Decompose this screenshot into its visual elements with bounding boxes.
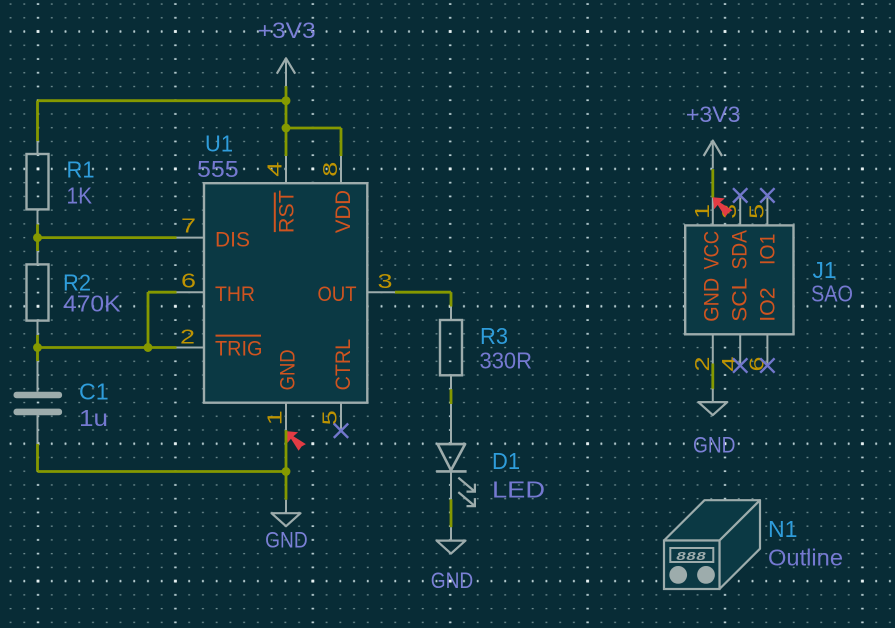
svg-text:CTRL: CTRL: [332, 339, 355, 391]
J1 pin 4: [739, 334, 741, 363]
svg-text:GND: GND: [431, 568, 474, 593]
pin 7 DIS: [177, 237, 205, 239]
diode D1: [450, 404, 452, 444]
svg-text:2: 2: [692, 357, 714, 372]
svg-text:4: 4: [265, 162, 287, 177]
ground below J1: [698, 402, 727, 415]
op-amp U1 body: [204, 183, 367, 403]
wire pin8 vertical: [340, 128, 343, 156]
svg-text:1u: 1u: [79, 405, 108, 431]
svg-text:C1: C1: [79, 379, 109, 405]
junction DIS node: [33, 233, 42, 242]
svg-text:J1: J1: [813, 257, 837, 283]
svg-text:IO2: IO2: [757, 287, 780, 322]
svg-text:R3: R3: [480, 323, 508, 349]
J1 pin 1: [712, 198, 714, 226]
J1 pin 3: [739, 198, 741, 226]
wire bottom horizontal: [38, 470, 287, 473]
svg-text:6: 6: [181, 270, 196, 292]
wire +3V3 stem to junction: [285, 86, 288, 101]
svg-text:1: 1: [265, 410, 287, 425]
marker arrow at J1 pin1: [713, 197, 733, 217]
svg-text:D1: D1: [492, 448, 520, 474]
pin 8 VDD: [340, 156, 342, 183]
pin 1 GND: [285, 403, 287, 430]
power symbol +3V3 (main): [285, 58, 287, 86]
wire +3V3 to J1 pin1: [711, 169, 714, 198]
svg-text:5: 5: [746, 204, 768, 219]
wire C1 bottom vertical: [36, 444, 39, 472]
svg-text:330R: 330R: [480, 348, 533, 374]
svg-text:GND: GND: [701, 278, 724, 322]
ground below U1: [272, 513, 301, 526]
wire TRIG horizontal: [38, 346, 177, 349]
no-connect X J1 pin3: [733, 188, 747, 202]
svg-text:8: 8: [320, 162, 342, 177]
svg-text:470K: 470K: [63, 291, 121, 317]
resistor R1: [37, 141, 39, 154]
svg-text:N1: N1: [768, 516, 798, 542]
svg-text:SCL: SCL: [729, 278, 752, 322]
junction at +3V3 node: [282, 96, 291, 105]
resistor R3: [450, 307, 452, 320]
power symbol +3V3 (J1): [712, 141, 714, 169]
pin 4 RST: [285, 156, 287, 183]
svg-text:VCC: VCC: [701, 231, 724, 270]
svg-text:RST: RST: [275, 190, 298, 233]
junction VDD branch: [282, 124, 291, 133]
svg-text:SAO: SAO: [811, 281, 853, 307]
J1 pin 2: [712, 334, 714, 363]
ground below D1: [437, 541, 466, 554]
svg-text:R1: R1: [67, 156, 95, 182]
svg-text:OUT: OUT: [318, 283, 357, 306]
no-connect X J1 pin5: [760, 188, 774, 202]
wire R3 to D1: [450, 389, 453, 404]
no-connect X J1 pin4: [733, 358, 747, 372]
wire OUT horizontal: [395, 291, 451, 294]
svg-text:GND: GND: [693, 432, 736, 457]
svg-text:GND: GND: [277, 349, 300, 390]
svg-text:+3V3: +3V3: [258, 18, 316, 43]
wire U1 pin1 down: [285, 430, 288, 500]
svg-text:+3V3: +3V3: [686, 102, 741, 127]
wire OUT vertical: [450, 292, 453, 306]
svg-text:555: 555: [197, 156, 239, 182]
pin 6 THR: [177, 291, 205, 293]
svg-text:THR: THR: [215, 283, 255, 306]
svg-text:DIS: DIS: [215, 228, 250, 251]
marker arrow at U1 pin1: [286, 431, 306, 451]
wire top horizontal: [38, 99, 287, 102]
svg-text:IO1: IO1: [757, 234, 780, 266]
svg-text:2: 2: [180, 327, 195, 349]
no-connect X pin5: [334, 424, 348, 438]
svg-text:3: 3: [378, 271, 393, 293]
no-connect X J1 pin6: [760, 358, 774, 372]
svg-text:GND: GND: [265, 527, 308, 552]
svg-text:TRIG: TRIG: [215, 337, 263, 360]
wire THR loop vertical: [147, 292, 150, 347]
svg-text:VDD: VDD: [332, 190, 355, 233]
wire D1 to GND: [450, 499, 453, 527]
connector J1 body: [685, 225, 793, 334]
wire left vertical to R1: [36, 101, 39, 142]
junction bottom node: [282, 467, 291, 476]
J1 pin 6: [766, 334, 768, 363]
resistor R2: [37, 251, 39, 264]
wire R2 to junction: [36, 335, 39, 361]
svg-text:1: 1: [692, 204, 714, 219]
wire R1 to junction: [36, 224, 39, 251]
svg-text:SDA: SDA: [729, 230, 752, 270]
wire J1 pin2 down: [711, 364, 714, 390]
svg-text:7: 7: [181, 215, 196, 237]
svg-text:5: 5: [320, 410, 342, 425]
pin 3 OUT: [367, 291, 395, 293]
wire branch to pin8 horizontal: [286, 127, 341, 130]
svg-text:1K: 1K: [67, 182, 93, 208]
junction TRIG node left: [33, 343, 42, 352]
pin 2 TRIG: [177, 347, 205, 349]
J1 pin 5: [766, 198, 768, 226]
capacitor C1: [37, 361, 39, 392]
svg-text:U1: U1: [205, 130, 233, 156]
pin 5 CTRL: [340, 403, 342, 430]
junction TRIG mid: [144, 343, 153, 352]
badge N1 outline drawing: [664, 500, 760, 540]
svg-text:888: 888: [676, 551, 706, 564]
svg-text:Outline: Outline: [768, 545, 843, 571]
wire DIS horizontal: [38, 236, 177, 239]
wire VDD branch vertical: [285, 101, 288, 156]
wire THR loop horizontal: [148, 291, 177, 294]
svg-text:LED: LED: [492, 476, 545, 502]
